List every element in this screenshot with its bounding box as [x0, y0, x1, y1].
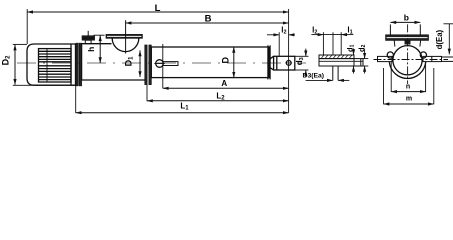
dimension d3 arrows [305, 49, 307, 57]
dimension D [233, 47, 235, 78]
stator tube [151, 47, 269, 78]
dimension d2 arrows [364, 49, 366, 59]
dimension B [126, 22, 289, 24]
svg-text:d3: d3 [295, 57, 305, 65]
inlet centerline / B extension [125, 20, 127, 53]
motor end ring [70, 44, 72, 85]
end view neck center stud [405, 41, 410, 45]
svg-text:b: b [404, 13, 409, 23]
dimension d1 arrows [353, 49, 355, 56]
pipe circle [393, 46, 422, 75]
pump suction housing [82, 44, 145, 80]
saddle arc [389, 62, 425, 78]
stand extension inner [390, 62, 392, 92]
motor M1 body [27, 44, 76, 85]
wall arm [442, 56, 453, 58]
end view vertical centerline [407, 24, 409, 84]
svg-text:d2: d2 [357, 44, 367, 52]
common right extension line [288, 9, 290, 113]
dimension h [99, 35, 101, 63]
L extension left [26, 9, 28, 44]
tie rod [163, 62, 178, 66]
svg-text:D1: D1 [124, 56, 135, 67]
inlet flange [106, 34, 142, 38]
svg-text:d1: d1 [346, 44, 356, 52]
dimension l2 coupling [267, 32, 295, 56]
dimension L [27, 11, 288, 13]
stand extension outer [383, 68, 385, 104]
motor fin block [39, 49, 72, 82]
gland bolt circle [156, 60, 164, 68]
coupling bolt [286, 61, 291, 66]
end view flange plate [386, 35, 429, 41]
motor fins [39, 51, 72, 79]
dimension L2 [147, 100, 289, 102]
motor flange plates [76, 43, 78, 86]
svg-text:L1: L1 [180, 101, 189, 111]
dimension l2 l1 bracket [311, 32, 353, 55]
dimension L1 [76, 112, 289, 114]
dimension b [390, 21, 420, 23]
svg-text:n: n [406, 84, 410, 91]
svg-text:l1: l1 [347, 25, 352, 35]
dimension n [391, 91, 425, 93]
svg-text:m: m [406, 96, 412, 103]
dimension D1 [139, 50, 141, 77]
coupling body [274, 56, 295, 70]
dimension D2 [14, 45, 16, 85]
dimension d(Ea) [448, 24, 450, 54]
dimension b extensions [389, 24, 391, 34]
clamp lug left [387, 52, 393, 58]
svg-text:h: h [86, 47, 96, 52]
dimension D3(Ea) [306, 79, 333, 81]
clamp ear left [378, 56, 393, 61]
centerline main shaft axis [17, 62, 306, 64]
end view horizontal centerline [374, 59, 449, 61]
svg-text:L: L [155, 3, 161, 14]
svg-text:D3(Ea): D3(Ea) [303, 73, 325, 80]
dimension d3 extension ticks [295, 55, 309, 57]
end view neck [393, 40, 396, 46]
bracket bolt shaft [332, 66, 334, 80]
suction bowl dome [112, 38, 139, 51]
gland bolt vertical / A extension [162, 44, 164, 88]
svg-text:l2: l2 [281, 26, 286, 36]
svg-text:D: D [220, 56, 230, 63]
svg-text:B: B [205, 14, 212, 25]
clamp lug right [420, 52, 426, 58]
end cap plates [267, 45, 269, 79]
casing flange plates [145, 45, 147, 85]
dimension m [384, 103, 434, 105]
bracket lower bar [319, 59, 363, 66]
svg-text:A: A [221, 79, 227, 88]
dimension A [163, 87, 289, 89]
svg-text:L2: L2 [216, 92, 225, 102]
svg-text:d(Ea): d(Ea) [435, 29, 444, 49]
bracket extension ticks [363, 58, 368, 60]
motor fin block seam [46, 49, 48, 82]
bracket side view hatched bar [319, 55, 354, 59]
clamp ear right [423, 56, 442, 61]
breather cap on housing [82, 31, 95, 44]
svg-text:l2: l2 [312, 25, 317, 35]
coupling taper [270, 56, 274, 70]
svg-text:D2: D2 [1, 55, 12, 66]
